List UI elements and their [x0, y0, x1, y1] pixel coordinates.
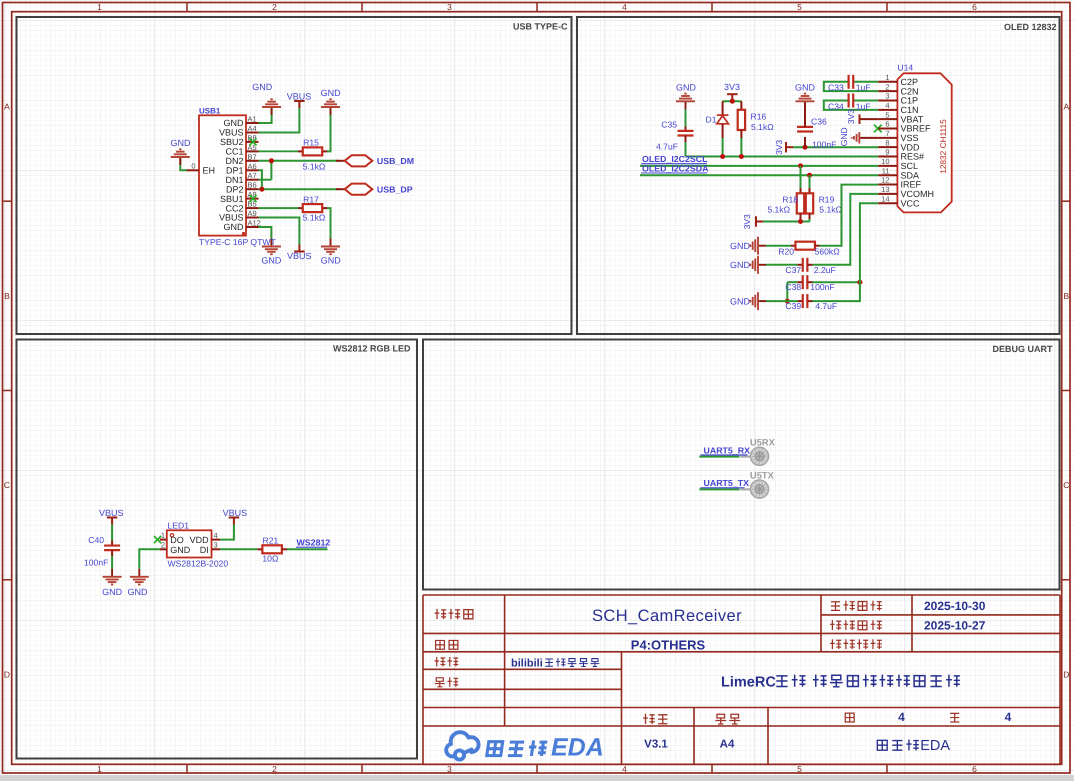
svg-text:5.1kΩ: 5.1kΩ — [303, 213, 326, 223]
svg-text:5: 5 — [797, 2, 802, 12]
ground top-right GND — [321, 99, 340, 115]
no-connect X on DO — [154, 536, 161, 543]
svg-text:GND: GND — [795, 83, 816, 93]
wire EH to GND — [180, 158, 186, 171]
svg-text:R21: R21 — [263, 536, 279, 546]
capacitor C38 — [787, 281, 797, 283]
wire LED1 VDD to VBUS — [220, 525, 234, 540]
wire 3V3 to D1 R16 top — [723, 100, 742, 102]
ground left EH GND — [171, 149, 190, 165]
svg-text:C35: C35 — [661, 120, 677, 130]
svg-text:B6: B6 — [248, 181, 257, 190]
svg-text:100nF: 100nF — [810, 282, 834, 292]
svg-text:WS2812B-2020: WS2812B-2020 — [168, 559, 229, 569]
resistor R15 — [298, 150, 303, 152]
wire DN2-DN1 vertical — [270, 161, 272, 180]
svg-text:UART5_RX: UART5_RX — [704, 445, 751, 455]
title label update date — [831, 602, 840, 611]
svg-text:6: 6 — [885, 120, 889, 129]
capacitor C33 — [849, 75, 854, 89]
svg-text:1: 1 — [885, 73, 889, 82]
svg-text:SBU1: SBU1 — [220, 194, 244, 204]
svg-text:GND: GND — [730, 241, 751, 251]
wire C38 right to VCC riser — [813, 281, 860, 283]
svg-text:VBUS: VBUS — [219, 213, 244, 223]
svg-text:SBU2: SBU2 — [220, 137, 244, 147]
U14 pin stubs and labels — [878, 81, 897, 83]
ground below LED1 pin2 — [130, 569, 149, 585]
net label UART5_TX with wire — [699, 488, 739, 490]
resistor R17 — [298, 207, 303, 209]
power 3V3 at VBAT pin5 — [860, 118, 879, 120]
svg-text:R15: R15 — [303, 138, 319, 148]
ground left of R20 — [750, 237, 766, 255]
ground left of C37 — [750, 256, 766, 274]
svg-text:4: 4 — [214, 531, 218, 540]
svg-text:5.1kΩ: 5.1kΩ — [819, 204, 842, 214]
power 3V3 rotated at VDD — [786, 142, 793, 153]
JLCEDA logo text — [487, 742, 503, 756]
svg-text:DEBUG UART: DEBUG UART — [993, 344, 1054, 354]
resistor R21 — [257, 548, 262, 550]
section block OLED 12832 — [577, 17, 1060, 334]
svg-text:C: C — [1063, 480, 1069, 490]
capacitor C36 — [804, 137, 806, 147]
svg-text:100nF: 100nF — [84, 558, 108, 568]
svg-text:TYPE-C 16P QTWT: TYPE-C 16P QTWT — [199, 237, 276, 247]
junction 3V3 stem — [730, 99, 735, 104]
svg-text:C38: C38 — [785, 282, 801, 292]
junction C38 right — [857, 280, 862, 285]
svg-text:2.2uF: 2.2uF — [814, 265, 836, 275]
USB1 pin1 marker dot — [242, 232, 245, 235]
svg-text:LimeRC: LimeRC — [721, 675, 776, 691]
svg-text:A4: A4 — [720, 739, 735, 751]
svg-text:3: 3 — [447, 2, 452, 12]
svg-text:P4:OTHERS: P4:OTHERS — [631, 637, 706, 652]
svg-text:GND: GND — [224, 118, 245, 128]
svg-text:3: 3 — [447, 764, 452, 774]
ground top-left GND — [262, 99, 281, 115]
svg-text:2: 2 — [272, 764, 277, 774]
svg-text:C37: C37 — [785, 265, 801, 275]
junction SDA-R19 — [807, 173, 812, 178]
svg-text:A4: A4 — [248, 124, 257, 133]
svg-text:GND: GND — [321, 88, 342, 98]
svg-text:VDD: VDD — [190, 535, 210, 545]
power VBUS top — [294, 101, 305, 108]
svg-text:OLED 12832: OLED 12832 — [1004, 22, 1057, 32]
JLCEDA logo cloud — [446, 732, 478, 759]
svg-text:A: A — [4, 102, 10, 112]
svg-text:560kΩ: 560kΩ — [815, 247, 841, 257]
svg-text:USB TYPE-C: USB TYPE-C — [513, 22, 568, 32]
svg-text:C39: C39 — [785, 301, 801, 311]
svg-text:B: B — [4, 291, 10, 301]
title label version — [643, 714, 655, 724]
LED1 pin stubs — [160, 539, 167, 541]
svg-text:1: 1 — [97, 2, 102, 12]
junction R18-3V3 — [798, 219, 803, 224]
svg-text:DI: DI — [200, 545, 209, 555]
wire B6 DP2 to USB_DP — [259, 188, 339, 190]
wire A5 to R15 — [259, 150, 299, 152]
svg-text:D: D — [4, 669, 10, 679]
capacitor C37 — [766, 264, 798, 266]
capacitor C40 — [111, 525, 113, 541]
svg-text:B: B — [1063, 291, 1069, 301]
svg-text:USB_DP: USB_DP — [377, 185, 413, 195]
svg-text:GND: GND — [839, 127, 849, 146]
svg-text:WS2812: WS2812 — [297, 538, 331, 548]
svg-text:0: 0 — [191, 162, 195, 171]
svg-text:5.1kΩ: 5.1kΩ — [303, 161, 326, 171]
svg-text:2: 2 — [885, 82, 889, 91]
svg-text:C33: C33 — [828, 83, 844, 93]
title block grid lines — [423, 595, 1060, 764]
svg-text:2025-10-27: 2025-10-27 — [924, 619, 986, 633]
svg-text:GND: GND — [676, 83, 697, 93]
wire VDD rail pin8 — [793, 146, 878, 148]
power VBUS above LED1 — [229, 518, 240, 525]
wire C38 left drop to C39 — [786, 282, 788, 301]
svg-text:3V3: 3V3 — [724, 82, 740, 92]
wire A4 to VBUS — [259, 101, 300, 133]
svg-text:VBUS: VBUS — [223, 508, 248, 518]
svg-text:4: 4 — [622, 2, 627, 12]
net label UART5_RX with wire — [699, 456, 739, 458]
port USB_DM — [336, 160, 345, 162]
title value JLCEDA name — [877, 740, 887, 750]
power VBUS above C40 — [107, 518, 118, 525]
svg-text:UART5_TX: UART5_TX — [704, 478, 750, 488]
power VBUS bottom — [294, 245, 305, 252]
svg-text:4: 4 — [885, 101, 889, 110]
svg-text:GND: GND — [321, 256, 342, 266]
power 3V3 above D1/R16 — [727, 94, 738, 101]
svg-text:GND: GND — [730, 296, 751, 306]
svg-text:DO: DO — [170, 535, 184, 545]
svg-text:VBUS: VBUS — [287, 251, 312, 261]
svg-text:10Ω: 10Ω — [262, 553, 279, 563]
junction D1-RES# — [720, 154, 725, 159]
junction SCL-R18 — [798, 163, 803, 168]
svg-text:U5TX: U5TX — [750, 470, 775, 480]
svg-text:GND: GND — [128, 587, 149, 597]
svg-text:1uF: 1uF — [856, 82, 871, 92]
title label create date — [830, 620, 841, 630]
svg-text:5.1kΩ: 5.1kΩ — [767, 204, 790, 214]
diode D1 — [722, 101, 724, 115]
ground at VSS pin7 — [859, 137, 878, 139]
no-connect X on SBU2 — [249, 138, 256, 145]
svg-text:C: C — [4, 480, 10, 490]
ground left of C39 — [750, 292, 766, 310]
frame ruler ticks — [186, 3, 188, 12]
svg-text:2025-10-30: 2025-10-30 — [924, 599, 986, 613]
svg-text:GND: GND — [171, 138, 192, 148]
wire RES# rail pin9 — [686, 156, 879, 158]
svg-text:USB_DM: USB_DM — [377, 156, 414, 166]
svg-text:bilibili: bilibili — [511, 657, 543, 669]
ground bottom GND at R17 — [321, 239, 340, 255]
title label size — [715, 714, 726, 724]
capacitor C39 — [766, 300, 798, 302]
title label page — [845, 713, 854, 722]
svg-text:R20: R20 — [778, 247, 794, 257]
svg-text:GND: GND — [170, 545, 191, 555]
svg-text:A: A — [1063, 102, 1069, 112]
wire C37 to VCOMH pin13 — [813, 194, 879, 265]
svg-text:A12: A12 — [248, 219, 261, 228]
junction DP2 node — [259, 187, 264, 192]
svg-text:SCH_CamReceiver: SCH_CamReceiver — [592, 607, 742, 625]
resistor R19 — [809, 175, 811, 188]
wire B5 to R17 — [259, 207, 299, 209]
junction R16-RES# — [739, 154, 744, 159]
svg-text:GND: GND — [102, 587, 123, 597]
svg-text:DN1: DN1 — [225, 175, 243, 185]
svg-text:GND: GND — [224, 222, 245, 232]
wire A1 to GND — [259, 107, 272, 123]
svg-text:4.7uF: 4.7uF — [815, 301, 837, 311]
power 3V3 rotated left — [756, 216, 763, 227]
svg-text:9: 9 — [885, 148, 889, 157]
svg-text:C40: C40 — [88, 535, 104, 545]
svg-text:4.7uF: 4.7uF — [656, 142, 678, 152]
svg-text:11: 11 — [882, 166, 890, 175]
svg-text:3V3: 3V3 — [742, 214, 752, 229]
wire C33 loop pins 1-2 — [853, 81, 879, 83]
test point U5RX — [741, 456, 752, 458]
wire A12 to GND — [259, 227, 272, 239]
svg-text:D1: D1 — [706, 115, 717, 125]
display U14 12832 CH1115 body — [897, 73, 951, 212]
svg-text:A6: A6 — [248, 162, 257, 171]
title label reviewed by — [435, 678, 445, 687]
svg-text:OLED_I2C2SDA: OLED_I2C2SDA — [642, 164, 709, 174]
section block USB TYPE-C — [17, 17, 572, 334]
svg-text:R18: R18 — [782, 194, 798, 204]
svg-text:3: 3 — [885, 92, 889, 101]
svg-text:U14: U14 — [897, 63, 913, 73]
svg-text:3V3: 3V3 — [774, 140, 784, 155]
svg-text:1: 1 — [97, 764, 102, 774]
svg-text:12: 12 — [881, 176, 889, 185]
svg-text:5: 5 — [797, 764, 802, 774]
USB1 pin EH — [187, 169, 200, 171]
junction C36-VDD — [803, 145, 808, 150]
svg-text:4: 4 — [898, 710, 905, 724]
svg-text:6: 6 — [972, 2, 977, 12]
svg-text:U5RX: U5RX — [750, 438, 776, 448]
no-connect X on SBU1 — [249, 195, 256, 202]
junction C39 left — [785, 299, 790, 304]
wire R15 to GND — [327, 107, 331, 151]
svg-text:6: 6 — [972, 764, 977, 774]
connector USB1 TYPE-C body — [199, 115, 246, 235]
wire B7 DN2 to USB_DM — [259, 160, 339, 162]
resistor R18 — [800, 166, 802, 188]
svg-text:10: 10 — [881, 157, 889, 166]
no-connect X on VBREF pin6 — [874, 125, 882, 133]
ground above C35 — [676, 94, 695, 110]
wire LED1 DI to R21 — [220, 548, 257, 550]
svg-text:3V3: 3V3 — [846, 109, 856, 124]
wire LED1 GND pin2 — [139, 549, 160, 569]
svg-text:USB1: USB1 — [199, 106, 221, 115]
capacitor C35 — [685, 109, 687, 127]
section block WS2812 RGB LED — [17, 340, 418, 759]
svg-text:4: 4 — [1005, 710, 1012, 724]
svg-text:A7: A7 — [248, 171, 257, 180]
wire A9 to VBUS — [259, 218, 300, 245]
svg-text:V3.1: V3.1 — [644, 739, 668, 751]
svg-text:1uF: 1uF — [856, 101, 871, 111]
svg-text:4: 4 — [622, 764, 627, 774]
ground below C40 — [103, 569, 122, 585]
LED1 WS2812B body — [167, 530, 212, 557]
svg-text:5.1kΩ: 5.1kΩ — [751, 122, 774, 132]
resistor R20 — [766, 245, 791, 247]
resistor R16 — [740, 101, 742, 110]
USB1 pin stubs and labels — [246, 122, 259, 124]
svg-text:R19: R19 — [819, 194, 835, 204]
svg-text:2: 2 — [272, 2, 277, 12]
svg-text:DN2: DN2 — [225, 156, 243, 166]
svg-text:LED1: LED1 — [168, 520, 190, 530]
wire R21 to WS2812 net label — [287, 548, 328, 550]
title label material code — [830, 639, 841, 649]
title label total — [950, 713, 959, 722]
port USB_DP — [336, 188, 345, 190]
title label drawn by — [435, 657, 446, 667]
svg-text:A1: A1 — [248, 115, 257, 124]
title label schematic — [435, 609, 447, 619]
svg-text:R16: R16 — [751, 112, 767, 122]
capacitor C34 — [849, 93, 854, 107]
svg-text:GND: GND — [261, 256, 282, 266]
svg-text:3: 3 — [214, 541, 218, 550]
svg-text:5: 5 — [885, 110, 889, 119]
svg-text:2: 2 — [161, 541, 165, 550]
svg-text:WS2812 RGB LED: WS2812 RGB LED — [333, 344, 411, 354]
svg-text:12832 CH1115: 12832 CH1115 — [938, 119, 948, 174]
svg-text:7: 7 — [885, 129, 889, 138]
wire A7 DN1 — [259, 179, 272, 181]
svg-text:D: D — [1063, 669, 1069, 679]
wire C34 loop pins 3-4 — [853, 99, 879, 101]
junction DN2 node — [269, 158, 274, 163]
svg-text:R17: R17 — [303, 194, 319, 204]
svg-text:VBUS: VBUS — [287, 92, 312, 102]
svg-text:100nF: 100nF — [812, 140, 836, 150]
ground bottom GND at A12 — [262, 239, 281, 255]
svg-text:14: 14 — [881, 194, 889, 203]
svg-text:13: 13 — [881, 185, 889, 194]
svg-text:1: 1 — [161, 531, 165, 540]
svg-text:C36: C36 — [811, 117, 827, 127]
svg-text:8: 8 — [885, 138, 889, 147]
section block DEBUG UART — [423, 340, 1060, 590]
wire SCL rail pin10 with net label OLED_I2C2SCL — [640, 165, 878, 167]
svg-text:B7: B7 — [248, 152, 257, 161]
svg-text:EH: EH — [203, 166, 216, 176]
wire SDA rail pin11 with net label OLED_I2C2SDA — [640, 174, 878, 176]
svg-text:EDA: EDA — [551, 734, 604, 762]
svg-text:A9: A9 — [248, 209, 257, 218]
svg-text:C34: C34 — [828, 101, 844, 111]
svg-text:EDA: EDA — [920, 738, 950, 754]
svg-text:VCC: VCC — [901, 198, 921, 208]
wire R20 to IREF pin12 — [820, 185, 879, 246]
wire C39 to VCC pin14 — [813, 203, 879, 301]
ground above C36 — [796, 94, 815, 110]
svg-text:GND: GND — [252, 82, 273, 92]
wire pullups to 3V3 — [763, 221, 810, 223]
wire A6 DP1 — [259, 170, 262, 189]
title label sheet page — [436, 640, 445, 649]
svg-text:VBUS: VBUS — [99, 508, 124, 518]
wire R17 to GND — [327, 208, 331, 238]
test point U5TX — [741, 488, 752, 490]
svg-text:GND: GND — [730, 260, 751, 270]
